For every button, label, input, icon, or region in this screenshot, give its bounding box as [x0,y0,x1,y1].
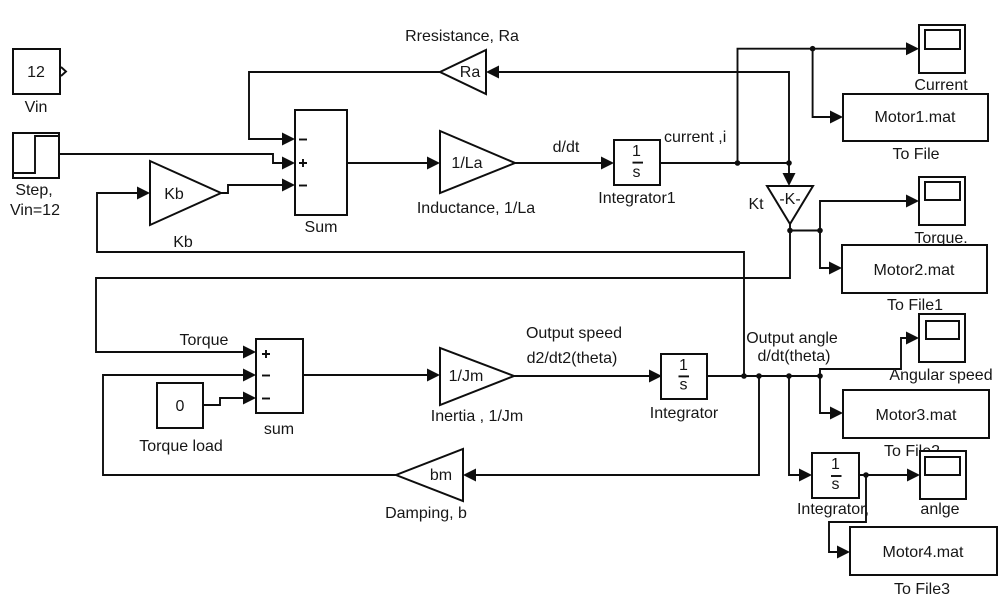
to-file block Motor2.mat [842,245,987,314]
svg-text:Output angle: Output angle [746,330,838,347]
svg-text:s: s [680,377,688,394]
wire 1/La to Integrator1, label d/dt [515,139,614,170]
to-file block Motor1.mat [843,94,988,163]
wire current to Current scope [738,42,920,163]
svg-text:Damping, b: Damping, b [385,505,467,522]
integrator block Integrator1 [598,140,675,207]
svg-text:d/dt: d/dt [553,139,580,156]
wire Torque load to sum [203,392,256,406]
scope Angular speed [889,314,992,384]
svg-text:d/dt(theta): d/dt(theta) [758,348,831,365]
svg-text:Rresistance, Ra: Rresistance, Ra [405,28,519,45]
wire Sum output to gain 1/La [347,157,440,170]
svg-text:1: 1 [632,143,641,160]
wire Kt output node [787,224,823,233]
svg-text:12: 12 [27,64,45,81]
svg-text:Step,: Step, [15,182,52,199]
svg-text:1/La: 1/La [451,155,482,172]
gain Ra (resistance) [405,28,519,94]
svg-text:Motor4.mat: Motor4.mat [883,544,964,561]
svg-text:Torque: Torque [180,332,229,349]
svg-text:To File1: To File1 [887,297,943,314]
wire speed feedback to Kb input [97,187,744,377]
gain bm (damping) [385,449,467,522]
svg-text:To File: To File [892,146,939,163]
svg-text:Integrator,: Integrator, [797,501,869,518]
svg-text:Sum: Sum [305,219,338,236]
constant block Vin (value 12) [13,49,66,116]
wire sum output to 1/Jm [303,369,440,382]
wire speed to Integrator2 [789,376,812,482]
svg-text:Inertia , 1/Jm: Inertia , 1/Jm [431,408,523,425]
node junction current to Kt [786,160,792,166]
svg-text:Motor3.mat: Motor3.mat [876,407,957,424]
svg-text:Ra: Ra [460,64,481,81]
svg-text:Angular speed: Angular speed [889,367,992,384]
wire Ra feedback to Sum minus input [249,72,440,146]
wire Kb output to Sum minus input [221,179,295,194]
svg-text:1/Jm: 1/Jm [449,368,484,385]
wire current branch up to Ra input [486,66,789,164]
svg-text:Kb: Kb [173,234,193,251]
svg-text:-K-: -K- [779,191,800,208]
svg-text:current ,i: current ,i [664,129,726,146]
svg-text:Motor2.mat: Motor2.mat [874,262,955,279]
wire speed line with junctions [708,330,838,379]
wire speed to bm damping feedback [463,376,759,482]
scope Current [914,25,968,94]
wire speed to Motor3.mat [820,376,843,420]
sum block Sum [295,110,347,236]
svg-text:bm: bm [430,467,452,484]
svg-text:Torque load: Torque load [139,438,223,455]
svg-text:Inductance, 1/La: Inductance, 1/La [417,200,535,217]
sum block sum [256,339,303,438]
wire Integrator2 to anlge scope [860,469,920,482]
svg-text:Motor1.mat: Motor1.mat [875,109,956,126]
scope Torque [914,177,967,247]
integrator block Integrator2 [797,453,869,518]
svg-text:1: 1 [679,357,688,374]
wire angle to Motor4.mat [829,475,866,559]
svg-text:Integrator: Integrator [650,405,719,422]
gain Kt (torque constant) [748,186,813,224]
integrator block Integrator [650,354,719,422]
wire branch to Motor1.mat [813,49,843,124]
svg-text:0: 0 [176,398,185,415]
svg-text:Output speed: Output speed [526,325,622,342]
svg-text:1: 1 [831,456,840,473]
wire speed to Angular speed scope [820,332,919,377]
constant block Torque load (value 0) [139,383,223,455]
gain Kb [150,161,221,251]
svg-text:anlge: anlge [920,501,959,518]
svg-text:To File3: To File3 [894,581,950,597]
wire torque to Torque scope [820,195,919,231]
gain Inertia 1/Jm [431,348,523,425]
svg-text:Vin: Vin [25,99,48,116]
wire torque feedback to sum block [96,231,790,359]
svg-text:Kb: Kb [164,186,184,203]
scope anlge [920,451,966,518]
step block Step, Vin=12 [10,133,60,219]
gain Inductance 1/La [417,131,535,217]
svg-text:Current: Current [914,77,968,94]
svg-text:s: s [633,164,641,181]
node junction on scope wire [810,46,816,52]
svg-text:sum: sum [264,421,294,438]
to-file block Motor4.mat [850,527,997,597]
wire Integrator1 output current line to Kt [659,163,796,186]
svg-text:Vin=12: Vin=12 [10,202,60,219]
svg-text:d2/dt2(theta): d2/dt2(theta) [527,350,618,367]
wire 1/Jm to Integrator, labels Output speed d2/dt2(theta) [514,325,662,383]
wire torque to Motor2.mat [820,231,842,275]
node junction current to scope [735,160,741,166]
to-file block Motor3.mat [843,390,989,460]
wire step to Sum plus input [59,154,295,170]
svg-text:Kt: Kt [748,196,764,213]
svg-text:Integrator1: Integrator1 [598,190,675,207]
svg-text:s: s [832,476,840,493]
wire bm output to sum minus input [103,369,396,476]
